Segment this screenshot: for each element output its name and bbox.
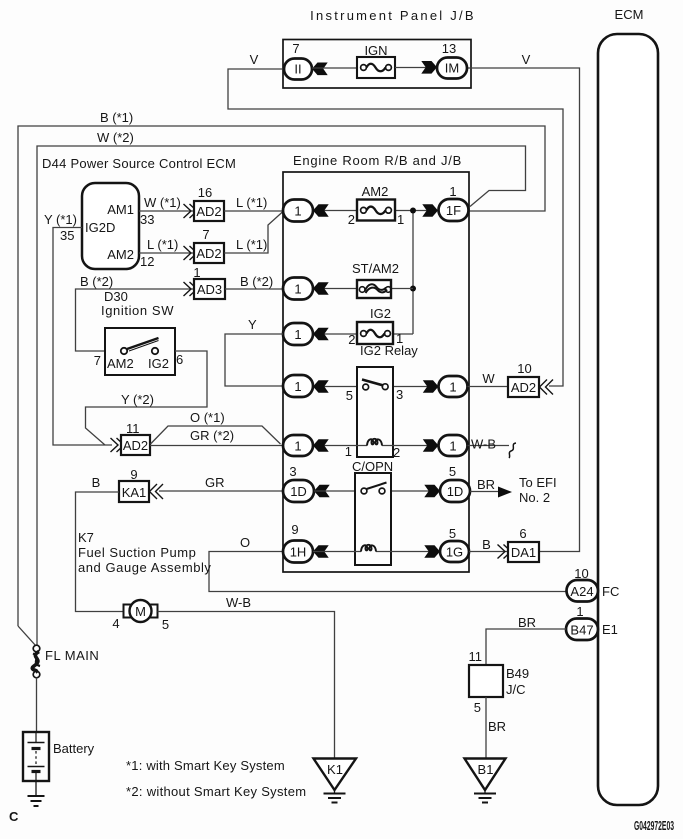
junction connector KA1	[119, 481, 149, 502]
Instrument Panel J/B box	[283, 40, 471, 89]
wire B: 1G to DA1	[469, 551, 508, 553]
svg-text:2: 2	[348, 332, 355, 347]
fuse IGN label	[364, 43, 387, 58]
wire: junction bus between fuse rows	[412, 211, 414, 335]
label: D30 Ignition SW	[101, 289, 174, 318]
pin 1 (fuse IG2)	[396, 331, 403, 346]
svg-text:J/C: J/C	[506, 682, 526, 697]
fuse AM2 label	[362, 184, 389, 199]
connector chevrons out of KA1	[150, 484, 164, 499]
label: Instrument Panel J/B title	[310, 8, 476, 23]
label K7 Fuel Suction Pump and Gauge Assembly	[78, 530, 211, 575]
pin 12 (D44 AM2)	[140, 254, 154, 269]
pin 3 (relay switch)	[396, 387, 403, 402]
svg-text:O (*1): O (*1)	[190, 410, 225, 425]
wire BR: B47 to junction B49	[486, 629, 566, 665]
svg-text:AD3: AD3	[197, 282, 222, 297]
svg-text:AM1: AM1	[107, 202, 134, 217]
ground (battery)	[28, 781, 45, 806]
wire: Y (*2) from D30 pin 6 looping down to AD2 junction 11	[86, 351, 208, 445]
arrowhead into connector 1 row 5 right	[423, 439, 439, 452]
wire: engine room row 7 internal (C/OPN coil)	[313, 551, 440, 553]
relay IG2 (main relay) box	[357, 367, 393, 457]
node B (*2) label (left)	[80, 274, 113, 289]
svg-text:AD2: AD2	[511, 380, 536, 395]
svg-text:D30: D30	[104, 289, 128, 304]
node W-B label (row 5)	[471, 437, 496, 452]
svg-text:B47: B47	[570, 623, 593, 638]
pin 2 (fuse IG2)	[348, 332, 355, 347]
junction dot row 2	[410, 286, 416, 292]
wire: IGN fuse to IM	[395, 67, 437, 69]
svg-text:B49: B49	[506, 666, 529, 681]
svg-text:3: 3	[396, 387, 403, 402]
svg-text:C/OPN: C/OPN	[352, 459, 393, 474]
node V label (left)	[250, 52, 259, 67]
wire: engine room row 2 internal	[313, 288, 413, 290]
node Y (*2) label	[121, 392, 154, 407]
arrowhead into connector 1 row 3	[313, 328, 329, 341]
wire: II to IGN fuse	[312, 67, 357, 69]
svg-text:AD2: AD2	[196, 204, 221, 219]
pin 1 (relay coil)	[345, 444, 352, 459]
label: ECM title	[615, 7, 644, 22]
note *1	[126, 758, 285, 773]
label C/OPN	[352, 459, 393, 474]
pin 2 (relay coil)	[393, 445, 400, 460]
svg-text:6: 6	[176, 352, 183, 367]
svg-text:V: V	[250, 52, 259, 67]
pin 7 (connector II)	[292, 41, 299, 56]
svg-text:33: 33	[140, 212, 154, 227]
wire GR: KA1 to 1D	[159, 490, 283, 492]
node V label (right)	[522, 52, 531, 67]
node L (*1) label (row 2 right)	[236, 237, 267, 252]
svg-text:1: 1	[345, 444, 352, 459]
svg-text:Y (*1): Y (*1)	[44, 212, 77, 227]
node BR label (B47)	[518, 615, 536, 630]
svg-text:AM2: AM2	[362, 184, 389, 199]
svg-text:W (*1): W (*1)	[144, 195, 181, 210]
node O (*1) label	[190, 410, 225, 425]
svg-text:G042972E03: G042972E03	[634, 818, 674, 833]
svg-text:9: 9	[291, 522, 298, 537]
connector 1G (engine room row 7 right)	[440, 541, 469, 562]
svg-text:16: 16	[198, 185, 212, 200]
wire GR (*2): AD2 11 to connector 1 row 5	[150, 445, 283, 447]
pin 6 (junction DA1)	[519, 526, 526, 541]
pin 35 (D44 IG2D)	[60, 228, 74, 243]
node L (*1) label (row 1)	[236, 195, 267, 210]
node W (*1) label	[144, 195, 181, 210]
connector 1 (engine room row 3)	[283, 323, 313, 345]
pin 5 (junction B49)	[474, 700, 481, 715]
svg-text:7: 7	[94, 353, 101, 368]
arrowhead into IM	[421, 61, 437, 74]
wire: FL MAIN to battery	[36, 678, 38, 733]
wire: B (*2) from ignition switch pin 7 to AD3	[76, 289, 195, 351]
wire break squiggle	[509, 443, 516, 458]
pin 6 (D30)	[176, 352, 183, 367]
svg-text:B (*1): B (*1)	[100, 110, 133, 125]
connector 1 (engine room row 5)	[283, 435, 313, 456]
relay IG2 switch contacts	[362, 380, 388, 390]
pin 11 (junction AD2)	[126, 421, 140, 436]
label IG2 Relay	[360, 343, 418, 358]
svg-text:W-B: W-B	[226, 595, 251, 610]
svg-text:V: V	[522, 52, 531, 67]
node E1 label	[602, 622, 618, 637]
arrowhead into connector 1D	[314, 485, 330, 498]
svg-text:1: 1	[576, 604, 583, 619]
pin 4 (motor)	[112, 616, 119, 631]
svg-text:KA1: KA1	[122, 485, 147, 500]
pin 7 (junction AD2)	[202, 227, 209, 242]
label To EFI No. 2	[519, 475, 557, 505]
svg-text:M: M	[135, 604, 146, 619]
svg-text:IGN: IGN	[364, 43, 387, 58]
svg-text:1: 1	[449, 184, 456, 199]
connector 1D (engine room row 6 left)	[283, 480, 314, 502]
pin 1 (fuse AM2)	[397, 212, 404, 227]
svg-text:1F: 1F	[446, 203, 461, 218]
wire: engine room row 4 internal	[313, 386, 438, 388]
fuse IG2 label	[370, 306, 391, 321]
svg-text:1D: 1D	[290, 484, 307, 499]
node W (*2) label	[97, 130, 134, 145]
arrowhead into connector 1H	[313, 545, 329, 558]
D44 power source control ECM body	[82, 183, 139, 269]
arrowhead into connector 1 row 5	[313, 439, 329, 452]
svg-text:1: 1	[449, 380, 456, 395]
svg-text:AM2: AM2	[107, 356, 134, 371]
pin 9 (junction KA1)	[130, 467, 137, 482]
label: D44 Power Source Control ECM	[42, 156, 236, 171]
svg-text:5: 5	[162, 617, 169, 632]
svg-text:No. 2: No. 2	[519, 490, 550, 505]
wire: V from connector IM down right side to DA1	[467, 68, 580, 552]
connector chevrons into AD2 (7)	[184, 246, 198, 260]
connector 1 (engine room row 4 right)	[439, 376, 468, 397]
connector 1F	[439, 199, 469, 221]
pin 9 (connector 1H)	[291, 522, 298, 537]
fuse AM2	[357, 200, 395, 221]
svg-text:Y: Y	[248, 317, 257, 332]
wire B (*1) from battery line to 1F	[18, 126, 545, 626]
wire: engine room row 1 internal	[313, 210, 438, 212]
relay C/OPN coil	[361, 545, 376, 552]
svg-text:B: B	[92, 475, 101, 490]
fuse IG2	[357, 322, 393, 344]
svg-text:IG2 Relay: IG2 Relay	[360, 343, 418, 358]
svg-text:IG2D: IG2D	[85, 220, 115, 235]
node BR label (EFI)	[477, 477, 495, 492]
svg-text:3: 3	[289, 464, 296, 479]
svg-text:FC: FC	[602, 584, 619, 599]
node FC label	[602, 584, 619, 599]
connector B47 / ECM pin E1	[566, 619, 598, 641]
svg-text:W: W	[482, 371, 495, 386]
wire W-B: motor to ground K1	[158, 612, 335, 759]
svg-text:1: 1	[449, 439, 456, 454]
wire: V from connector II down-left loop to AD2 pin 10	[228, 69, 563, 386]
svg-text:2: 2	[393, 445, 400, 460]
wire: B(*1) diagonal join into FL MAIN	[18, 626, 36, 646]
svg-text:2: 2	[348, 212, 355, 227]
connector 1 (engine room row 1)	[283, 200, 313, 222]
svg-text:5: 5	[449, 526, 456, 541]
svg-text:B (*2): B (*2)	[240, 274, 273, 289]
node W-B label	[226, 595, 251, 610]
svg-text:To EFI: To EFI	[519, 475, 557, 490]
pin 1 (connector 1F)	[449, 184, 456, 199]
connector chevrons into DA1	[498, 545, 512, 559]
wire: engine room row 6 internal	[314, 490, 440, 492]
arrowhead into connector 1G	[424, 545, 440, 558]
junction connector AD3	[194, 279, 225, 299]
wire: D44 AM2 to AD2 junction 7	[139, 252, 194, 254]
svg-text:BR: BR	[477, 477, 495, 492]
junction B49 J/C	[469, 665, 503, 697]
junction connector AD2 (16)	[194, 201, 224, 221]
svg-text:10: 10	[517, 361, 531, 376]
svg-text:*1: with Smart Key System: *1: with Smart Key System	[126, 758, 285, 773]
wire: AD3 to engine room connector 1 row 2	[225, 288, 283, 290]
node GR (*2) label	[190, 428, 234, 443]
connector II	[284, 59, 312, 80]
label G042972E03	[634, 818, 674, 833]
svg-text:ST/AM2: ST/AM2	[352, 261, 399, 276]
svg-text:BR: BR	[488, 719, 506, 734]
node O label	[240, 535, 250, 550]
node Y label	[248, 317, 257, 332]
svg-text:FL MAIN: FL MAIN	[45, 648, 99, 663]
svg-text:AM2: AM2	[107, 247, 134, 262]
wire O: 1H loop down to ECM FC (A24)	[209, 552, 567, 592]
fusible link ST/AM2 label	[352, 261, 399, 276]
relay IG2 coil	[367, 439, 382, 446]
node L (*1) label (row 2 left)	[147, 237, 178, 252]
svg-text:1: 1	[294, 327, 301, 342]
wire: Y (*1) from D44 pin 35 down to AD2 junction 11	[53, 228, 112, 446]
svg-text:Fuel Suction Pump: Fuel Suction Pump	[78, 545, 196, 560]
wire Y: connector 1 row 3 loop to connector 1 row 4	[225, 334, 283, 386]
svg-text:II: II	[294, 62, 301, 77]
svg-text:K1: K1	[327, 762, 343, 777]
svg-text:B1: B1	[478, 762, 494, 777]
wire: AD2 7 joining connector 1 row 1	[224, 212, 283, 254]
note *2	[126, 784, 306, 799]
pin 1 (connector B47)	[576, 604, 583, 619]
svg-text:B (*2): B (*2)	[80, 274, 113, 289]
arrowhead into connector 1 row 1	[313, 204, 329, 217]
wire B: KA1 to fuel pump motor	[76, 492, 124, 612]
pin 7 (D30)	[94, 353, 101, 368]
relay C/OPN box	[355, 473, 391, 565]
wire: D44 AM1 to AD2 junction 16	[139, 210, 194, 212]
svg-text:1: 1	[397, 212, 404, 227]
motor M (fuel pump)	[124, 600, 158, 622]
pin 16 (junction AD2)	[198, 185, 212, 200]
node GR label	[205, 475, 225, 490]
connector 1 (engine room row 2)	[283, 278, 313, 300]
svg-text:Ignition SW: Ignition SW	[101, 303, 174, 318]
svg-text:11: 11	[469, 649, 483, 664]
pin 1 (junction AD3)	[193, 265, 200, 280]
pin 3 (connector 1D left)	[289, 464, 296, 479]
svg-text:7: 7	[202, 227, 209, 242]
svg-text:L (*1): L (*1)	[236, 195, 267, 210]
wire O (*1): AD2 11 to connector 1 row 5 (upper bypass)	[151, 426, 281, 444]
svg-text:1: 1	[294, 282, 301, 297]
wire: AD2 16 to engine room connector 1	[224, 210, 283, 212]
svg-text:L (*1): L (*1)	[147, 237, 178, 252]
fusible link ST/AM2	[357, 280, 391, 298]
connector 1 (engine room row 5 right)	[439, 435, 468, 456]
svg-text:1H: 1H	[290, 545, 307, 560]
svg-text:GR (*2): GR (*2)	[190, 428, 234, 443]
wire W (*2) from battery line to 1F	[37, 146, 526, 646]
svg-text:E1: E1	[602, 622, 618, 637]
label B49 J/C	[506, 666, 529, 697]
connector 1D (engine room row 6 right)	[440, 480, 470, 502]
svg-text:GR: GR	[205, 475, 225, 490]
node Y (*1) label	[44, 212, 77, 227]
pin 5 (connector 1G)	[449, 526, 456, 541]
fusible link FL MAIN	[32, 645, 40, 678]
wire: engine room row 3 internal	[313, 333, 413, 335]
svg-text:Battery: Battery	[53, 741, 95, 756]
wire W: connector 1 to junction AD2 10	[468, 386, 509, 388]
junction dot row 1	[410, 208, 416, 214]
svg-text:and Gauge Assembly: and Gauge Assembly	[78, 560, 211, 575]
connector A24 / ECM pin FC	[567, 580, 599, 602]
svg-text:11: 11	[126, 421, 140, 436]
svg-text:D44 Power Source Control ECM: D44 Power Source Control ECM	[42, 156, 236, 171]
svg-text:C: C	[9, 809, 19, 824]
connector IM	[437, 58, 467, 79]
ground K1	[314, 759, 357, 803]
pin 11 (junction B49)	[469, 649, 483, 664]
arrowhead into connector 1 row 4	[313, 380, 329, 393]
label: Engine Room R/B and J/B	[293, 153, 462, 168]
pin 5 (connector 1D right)	[449, 464, 456, 479]
junction connector DA1	[508, 542, 539, 562]
connector 1 (engine room row 4)	[283, 375, 313, 397]
Engine Room R/B and J/B box	[283, 172, 469, 572]
svg-text:O: O	[240, 535, 250, 550]
svg-text:W (*2): W (*2)	[97, 130, 134, 145]
svg-text:9: 9	[130, 467, 137, 482]
switch D30 ignition SW	[105, 328, 175, 375]
node B label (KA1)	[92, 475, 101, 490]
node B (*1) label	[100, 110, 133, 125]
label FL MAIN	[45, 648, 99, 663]
pin 33 (D44 AM1)	[140, 212, 154, 227]
svg-text:Instrument Panel J/B: Instrument Panel J/B	[310, 8, 476, 23]
svg-text:DA1: DA1	[511, 545, 536, 560]
svg-text:1: 1	[294, 204, 301, 219]
pin label AM2 (D30)	[107, 356, 134, 371]
arrowhead into II	[312, 63, 328, 76]
wire: engine room row 5 internal (relay coil)	[313, 445, 438, 447]
pin 5 (motor)	[162, 617, 169, 632]
svg-text:1G: 1G	[446, 545, 463, 560]
svg-text:4: 4	[112, 616, 119, 631]
ground B1	[465, 759, 506, 803]
svg-text:BR: BR	[518, 615, 536, 630]
relay C/OPN switch contacts	[361, 483, 386, 494]
svg-text:W-B: W-B	[471, 437, 496, 452]
svg-text:Y (*2): Y (*2)	[121, 392, 154, 407]
svg-text:1D: 1D	[447, 484, 464, 499]
svg-text:K7: K7	[78, 530, 94, 545]
pin 5 (relay switch)	[346, 388, 353, 403]
junction connector AD2 (10)	[508, 377, 539, 397]
pin 2 (fuse AM2)	[348, 212, 355, 227]
ECM	[598, 34, 658, 805]
connector chevrons into AD2 (11)	[111, 438, 125, 452]
node BR label (B1)	[488, 719, 506, 734]
svg-text:L (*1): L (*1)	[236, 237, 267, 252]
arrow to EFI No. 2	[498, 487, 512, 498]
junction connector AD2 (7)	[194, 243, 224, 263]
node B (*2) label (right)	[240, 274, 273, 289]
svg-text:1: 1	[193, 265, 200, 280]
svg-text:6: 6	[519, 526, 526, 541]
svg-text:7: 7	[292, 41, 299, 56]
svg-text:AD2: AD2	[196, 246, 221, 261]
connector chevrons out of AD2 (10)	[540, 380, 554, 395]
svg-text:Engine Room R/B and J/B: Engine Room R/B and J/B	[293, 153, 462, 168]
svg-text:1: 1	[294, 379, 301, 394]
connector chevrons into AD2 (16)	[184, 204, 198, 218]
connector chevrons into AD3	[184, 282, 198, 296]
wire BR: B49 to ground B1	[485, 697, 487, 758]
svg-text:5: 5	[346, 388, 353, 403]
pin label IG2 (D30)	[148, 356, 169, 371]
connector 1H (engine room row 7 left)	[283, 541, 313, 563]
fuse IGN	[357, 57, 395, 78]
junction connector AD2 (11)	[121, 435, 150, 455]
arrowhead into 1F	[422, 204, 438, 217]
svg-text:IM: IM	[445, 61, 459, 76]
arrowhead into connector 1D right	[424, 485, 440, 498]
svg-text:1: 1	[294, 439, 301, 454]
pin 13 (connector IM)	[442, 41, 456, 56]
svg-text:A24: A24	[570, 584, 593, 599]
wire W-B stub with break	[468, 445, 510, 447]
pin 10 (connector A24)	[574, 566, 588, 581]
svg-text:5: 5	[474, 700, 481, 715]
pin 10 (junction AD2)	[517, 361, 531, 376]
node W label	[482, 371, 495, 386]
svg-text:12: 12	[140, 254, 154, 269]
battery	[23, 732, 49, 781]
wire BR to EFI	[470, 491, 498, 493]
svg-text:5: 5	[449, 464, 456, 479]
svg-text:B: B	[482, 537, 491, 552]
label Battery	[53, 741, 95, 756]
arrowhead into connector 1 row 4 right	[423, 380, 439, 393]
svg-text:ECM: ECM	[615, 7, 644, 22]
svg-text:13: 13	[442, 41, 456, 56]
svg-text:IG2: IG2	[370, 306, 391, 321]
arrowhead into connector 1 row 2	[313, 282, 329, 295]
svg-text:AD2: AD2	[123, 438, 148, 453]
node B label (1G)	[482, 537, 491, 552]
label C (page marker)	[9, 809, 19, 824]
